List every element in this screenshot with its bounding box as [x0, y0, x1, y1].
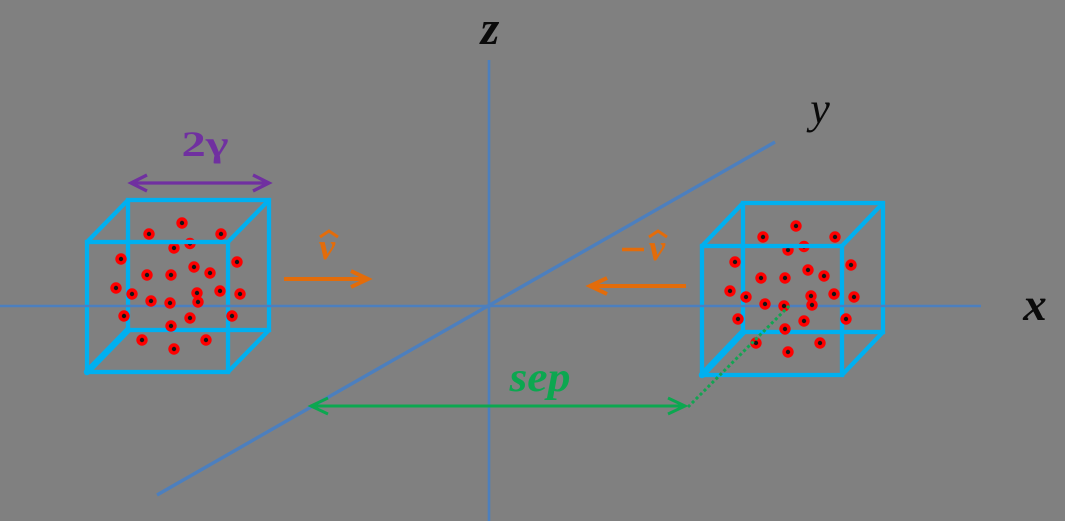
svg-text:x: x: [1022, 279, 1047, 331]
separation double arrow: [311, 398, 685, 414]
y axis: [157, 142, 775, 495]
z axis: [488, 60, 491, 521]
svg-text:y: y: [806, 84, 830, 133]
hidden particle right (behind cube edge): [782, 241, 809, 256]
dotted measurement line to cube center: [688, 305, 790, 407]
svg-text:2γ: 2γ: [182, 124, 229, 164]
svg-text:z: z: [479, 2, 500, 55]
velocity label v-hat left: [319, 227, 338, 268]
velocity arrow right-pointing: [284, 271, 368, 287]
particles right cube: [724, 220, 859, 357]
width double arrow: [131, 175, 269, 191]
hidden particle left (behind cube edge): [168, 238, 195, 254]
svg-text:sep: sep: [508, 355, 570, 401]
cube left (wireframe): [87, 200, 269, 372]
cube right (wireframe): [702, 203, 883, 375]
velocity label minus v-hat right: [622, 228, 667, 269]
x axis: [0, 305, 981, 307]
particles left cube: [110, 217, 245, 354]
velocity arrow left-pointing: [590, 278, 686, 294]
